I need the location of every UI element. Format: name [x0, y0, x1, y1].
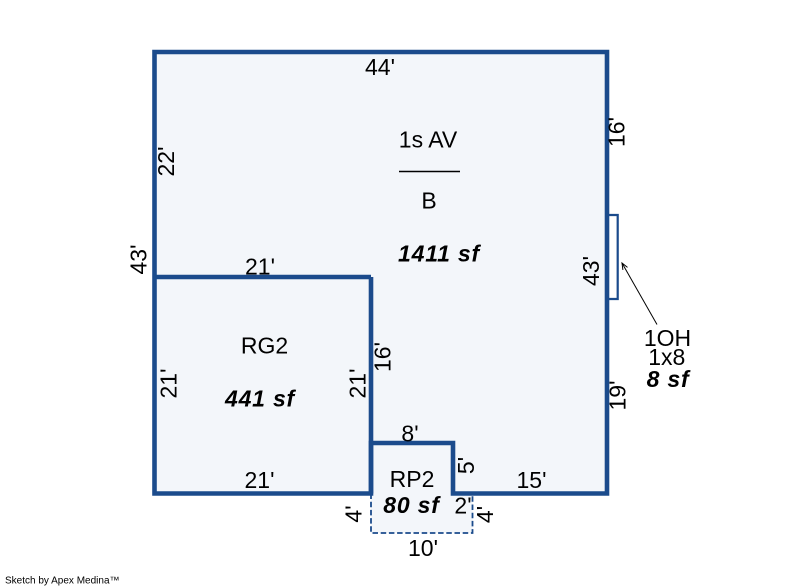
svg-text:10': 10' — [408, 535, 438, 561]
svg-text:Sketch by Apex Medina™: Sketch by Apex Medina™ — [5, 576, 120, 587]
svg-text:43': 43' — [578, 256, 604, 286]
svg-text:B: B — [421, 188, 436, 214]
RG2 top wall — [155, 275, 372, 280]
svg-text:RG2: RG2 — [241, 333, 288, 359]
svg-text:21': 21' — [245, 254, 275, 280]
svg-text:15': 15' — [517, 467, 547, 493]
svg-text:2': 2' — [454, 493, 471, 519]
svg-text:16': 16' — [370, 342, 396, 372]
svg-text:1411 sf: 1411 sf — [398, 241, 481, 267]
svg-text:19': 19' — [605, 381, 631, 411]
svg-text:22': 22' — [153, 147, 179, 177]
svg-text:1s AV: 1s AV — [399, 127, 458, 153]
svg-text:RP2: RP2 — [390, 466, 435, 492]
svg-text:4': 4' — [472, 506, 498, 523]
RG2 right wall — [369, 277, 374, 494]
leader arrow to 1OH — [622, 263, 657, 325]
svg-text:21': 21' — [245, 467, 275, 493]
svg-text:16': 16' — [604, 117, 630, 147]
svg-text:8': 8' — [401, 421, 418, 447]
svg-text:80 sf: 80 sf — [383, 492, 441, 518]
svg-text:21': 21' — [345, 369, 371, 399]
wall outline of area B — [155, 52, 608, 494]
svg-text:5': 5' — [453, 457, 479, 474]
RP2 dashed porch outline — [371, 494, 473, 534]
svg-text:43': 43' — [126, 245, 152, 275]
fraction line — [399, 171, 460, 173]
svg-text:8 sf: 8 sf — [647, 366, 691, 392]
svg-text:4': 4' — [341, 505, 367, 522]
area B interior fill — [155, 52, 608, 494]
svg-text:441 sf: 441 sf — [224, 386, 297, 412]
svg-text:21': 21' — [156, 369, 182, 399]
1OH overhang rectangle on right wall — [606, 215, 618, 299]
svg-text:44': 44' — [365, 54, 395, 80]
RP2 dashed extension interior fill — [371, 494, 473, 534]
